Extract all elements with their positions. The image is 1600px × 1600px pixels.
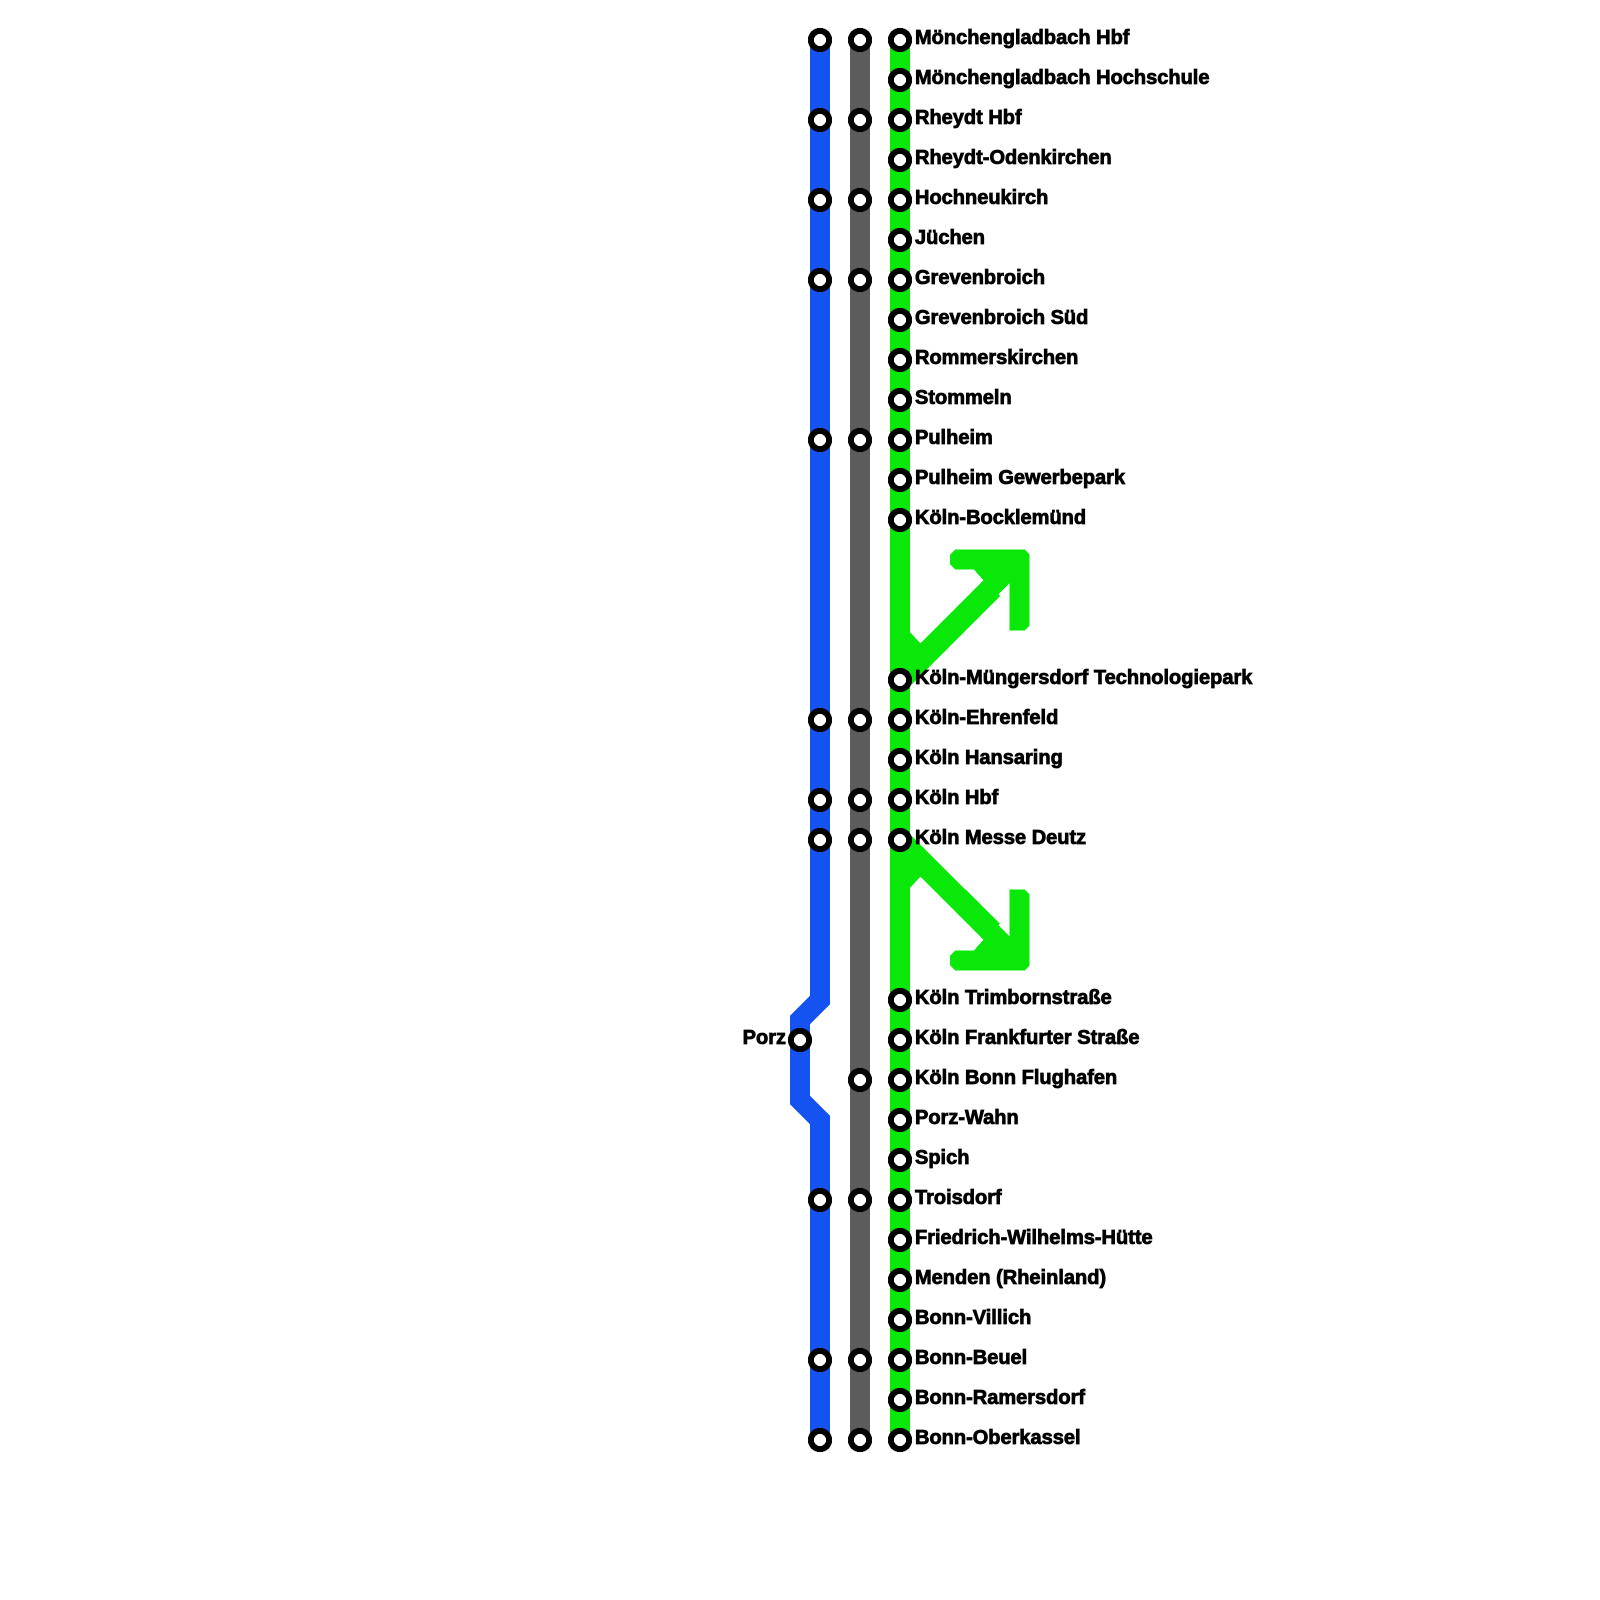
node Köln-Ehrenfeld xyxy=(811,707,1058,729)
svg-text:Köln Messe Deutz: Köln Messe Deutz xyxy=(915,827,1086,849)
wire green arrow NE shaft xyxy=(900,588,992,680)
svg-text:Spich: Spich xyxy=(915,1147,969,1169)
svg-text:Rommerskirchen: Rommerskirchen xyxy=(915,347,1078,369)
node Mönchengladbach Hbf xyxy=(811,27,1130,49)
node Bonn-Oberkassel xyxy=(811,1427,1081,1449)
svg-text:Troisdorf: Troisdorf xyxy=(915,1187,1002,1209)
node Grevenbroich Süd xyxy=(891,307,1088,329)
svg-text:Köln-Müngersdorf Technologiepa: Köln-Müngersdorf Technologiepark xyxy=(915,667,1253,689)
node Mönchengladbach Hochschule xyxy=(891,67,1210,89)
svg-text:Hochneukirch: Hochneukirch xyxy=(915,187,1048,209)
wire blue line xyxy=(800,40,820,1440)
svg-text:Rheydt Hbf: Rheydt Hbf xyxy=(915,107,1022,129)
node Bonn-Ramersdorf xyxy=(891,1387,1085,1409)
node Spich xyxy=(891,1147,970,1169)
svg-text:Köln Hansaring: Köln Hansaring xyxy=(915,747,1063,769)
node Grevenbroich xyxy=(811,267,1045,289)
svg-text:Grevenbroich Süd: Grevenbroich Süd xyxy=(915,307,1088,329)
wire green arrow NE tip fill xyxy=(973,569,1010,596)
svg-text:Köln Hbf: Köln Hbf xyxy=(915,787,999,809)
svg-text:Grevenbroich: Grevenbroich xyxy=(915,267,1045,289)
wire green line xyxy=(890,40,910,1440)
wire green arrow NE head xyxy=(950,550,1030,631)
node Pulheim xyxy=(811,427,993,449)
svg-text:Köln Trimbornstraße: Köln Trimbornstraße xyxy=(915,987,1112,1009)
node Rommerskirchen xyxy=(891,347,1079,369)
node Troisdorf xyxy=(811,1187,1002,1209)
svg-text:Friedrich-Wilhelms-Hütte: Friedrich-Wilhelms-Hütte xyxy=(915,1227,1153,1249)
wire green arrow SE tip fill xyxy=(973,924,1010,951)
svg-text:Porz-Wahn: Porz-Wahn xyxy=(915,1107,1019,1129)
svg-text:Porz: Porz xyxy=(743,1027,786,1049)
wire gray line xyxy=(850,40,870,1440)
node Köln Hbf xyxy=(811,787,999,809)
node Porz-Wahn xyxy=(891,1107,1019,1129)
node Köln-Bocklemünd xyxy=(891,507,1086,529)
node Stommeln xyxy=(891,387,1012,409)
node Köln Hansaring xyxy=(891,747,1063,769)
svg-text:Mönchengladbach Hochschule: Mönchengladbach Hochschule xyxy=(915,67,1209,89)
svg-text:Pulheim: Pulheim xyxy=(915,427,993,449)
node Jüchen xyxy=(891,227,985,249)
svg-text:Bonn-Villich: Bonn-Villich xyxy=(915,1307,1031,1329)
node Köln Messe Deutz xyxy=(811,827,1086,849)
svg-text:Bonn-Ramersdorf: Bonn-Ramersdorf xyxy=(915,1387,1085,1409)
svg-text:Pulheim Gewerbepark: Pulheim Gewerbepark xyxy=(915,467,1126,489)
node Köln-Müngersdorf Technologiepark xyxy=(891,667,1253,689)
svg-text:Jüchen: Jüchen xyxy=(915,227,985,249)
node Bonn-Villich xyxy=(891,1307,1031,1329)
node Menden (Rheinland) xyxy=(891,1267,1106,1289)
wire green arrow SE shaft flare xyxy=(910,864,921,888)
svg-text:Bonn-Oberkassel: Bonn-Oberkassel xyxy=(915,1427,1081,1449)
svg-text:Köln Bonn Flughafen: Köln Bonn Flughafen xyxy=(915,1067,1117,1089)
wire green arrow NE shaft flare xyxy=(910,632,921,656)
node Bonn-Beuel xyxy=(811,1347,1027,1369)
svg-text:Köln-Bocklemünd: Köln-Bocklemünd xyxy=(915,507,1086,529)
node Köln Frankfurter Straße xyxy=(891,1027,1140,1049)
node Porz xyxy=(743,1027,809,1049)
svg-text:Köln Frankfurter Straße: Köln Frankfurter Straße xyxy=(915,1027,1139,1049)
node Köln Trimbornstraße xyxy=(891,987,1112,1009)
node Hochneukirch xyxy=(811,187,1048,209)
node Pulheim Gewerbepark xyxy=(891,467,1126,489)
node Friedrich-Wilhelms-Hütte xyxy=(891,1227,1153,1249)
svg-text:Rheydt-Odenkirchen: Rheydt-Odenkirchen xyxy=(915,147,1112,169)
node Rheydt Hbf xyxy=(811,107,1022,129)
svg-text:Mönchengladbach Hbf: Mönchengladbach Hbf xyxy=(915,27,1130,49)
wire green arrow SE head xyxy=(950,890,1030,971)
svg-text:Bonn-Beuel: Bonn-Beuel xyxy=(915,1347,1027,1369)
svg-text:Stommeln: Stommeln xyxy=(915,387,1012,409)
wire green arrow SE shaft xyxy=(900,840,992,932)
node Rheydt-Odenkirchen xyxy=(891,147,1112,169)
svg-text:Köln-Ehrenfeld: Köln-Ehrenfeld xyxy=(915,707,1058,729)
svg-text:Menden (Rheinland): Menden (Rheinland) xyxy=(915,1267,1106,1289)
node Köln Bonn Flughafen xyxy=(851,1067,1117,1089)
